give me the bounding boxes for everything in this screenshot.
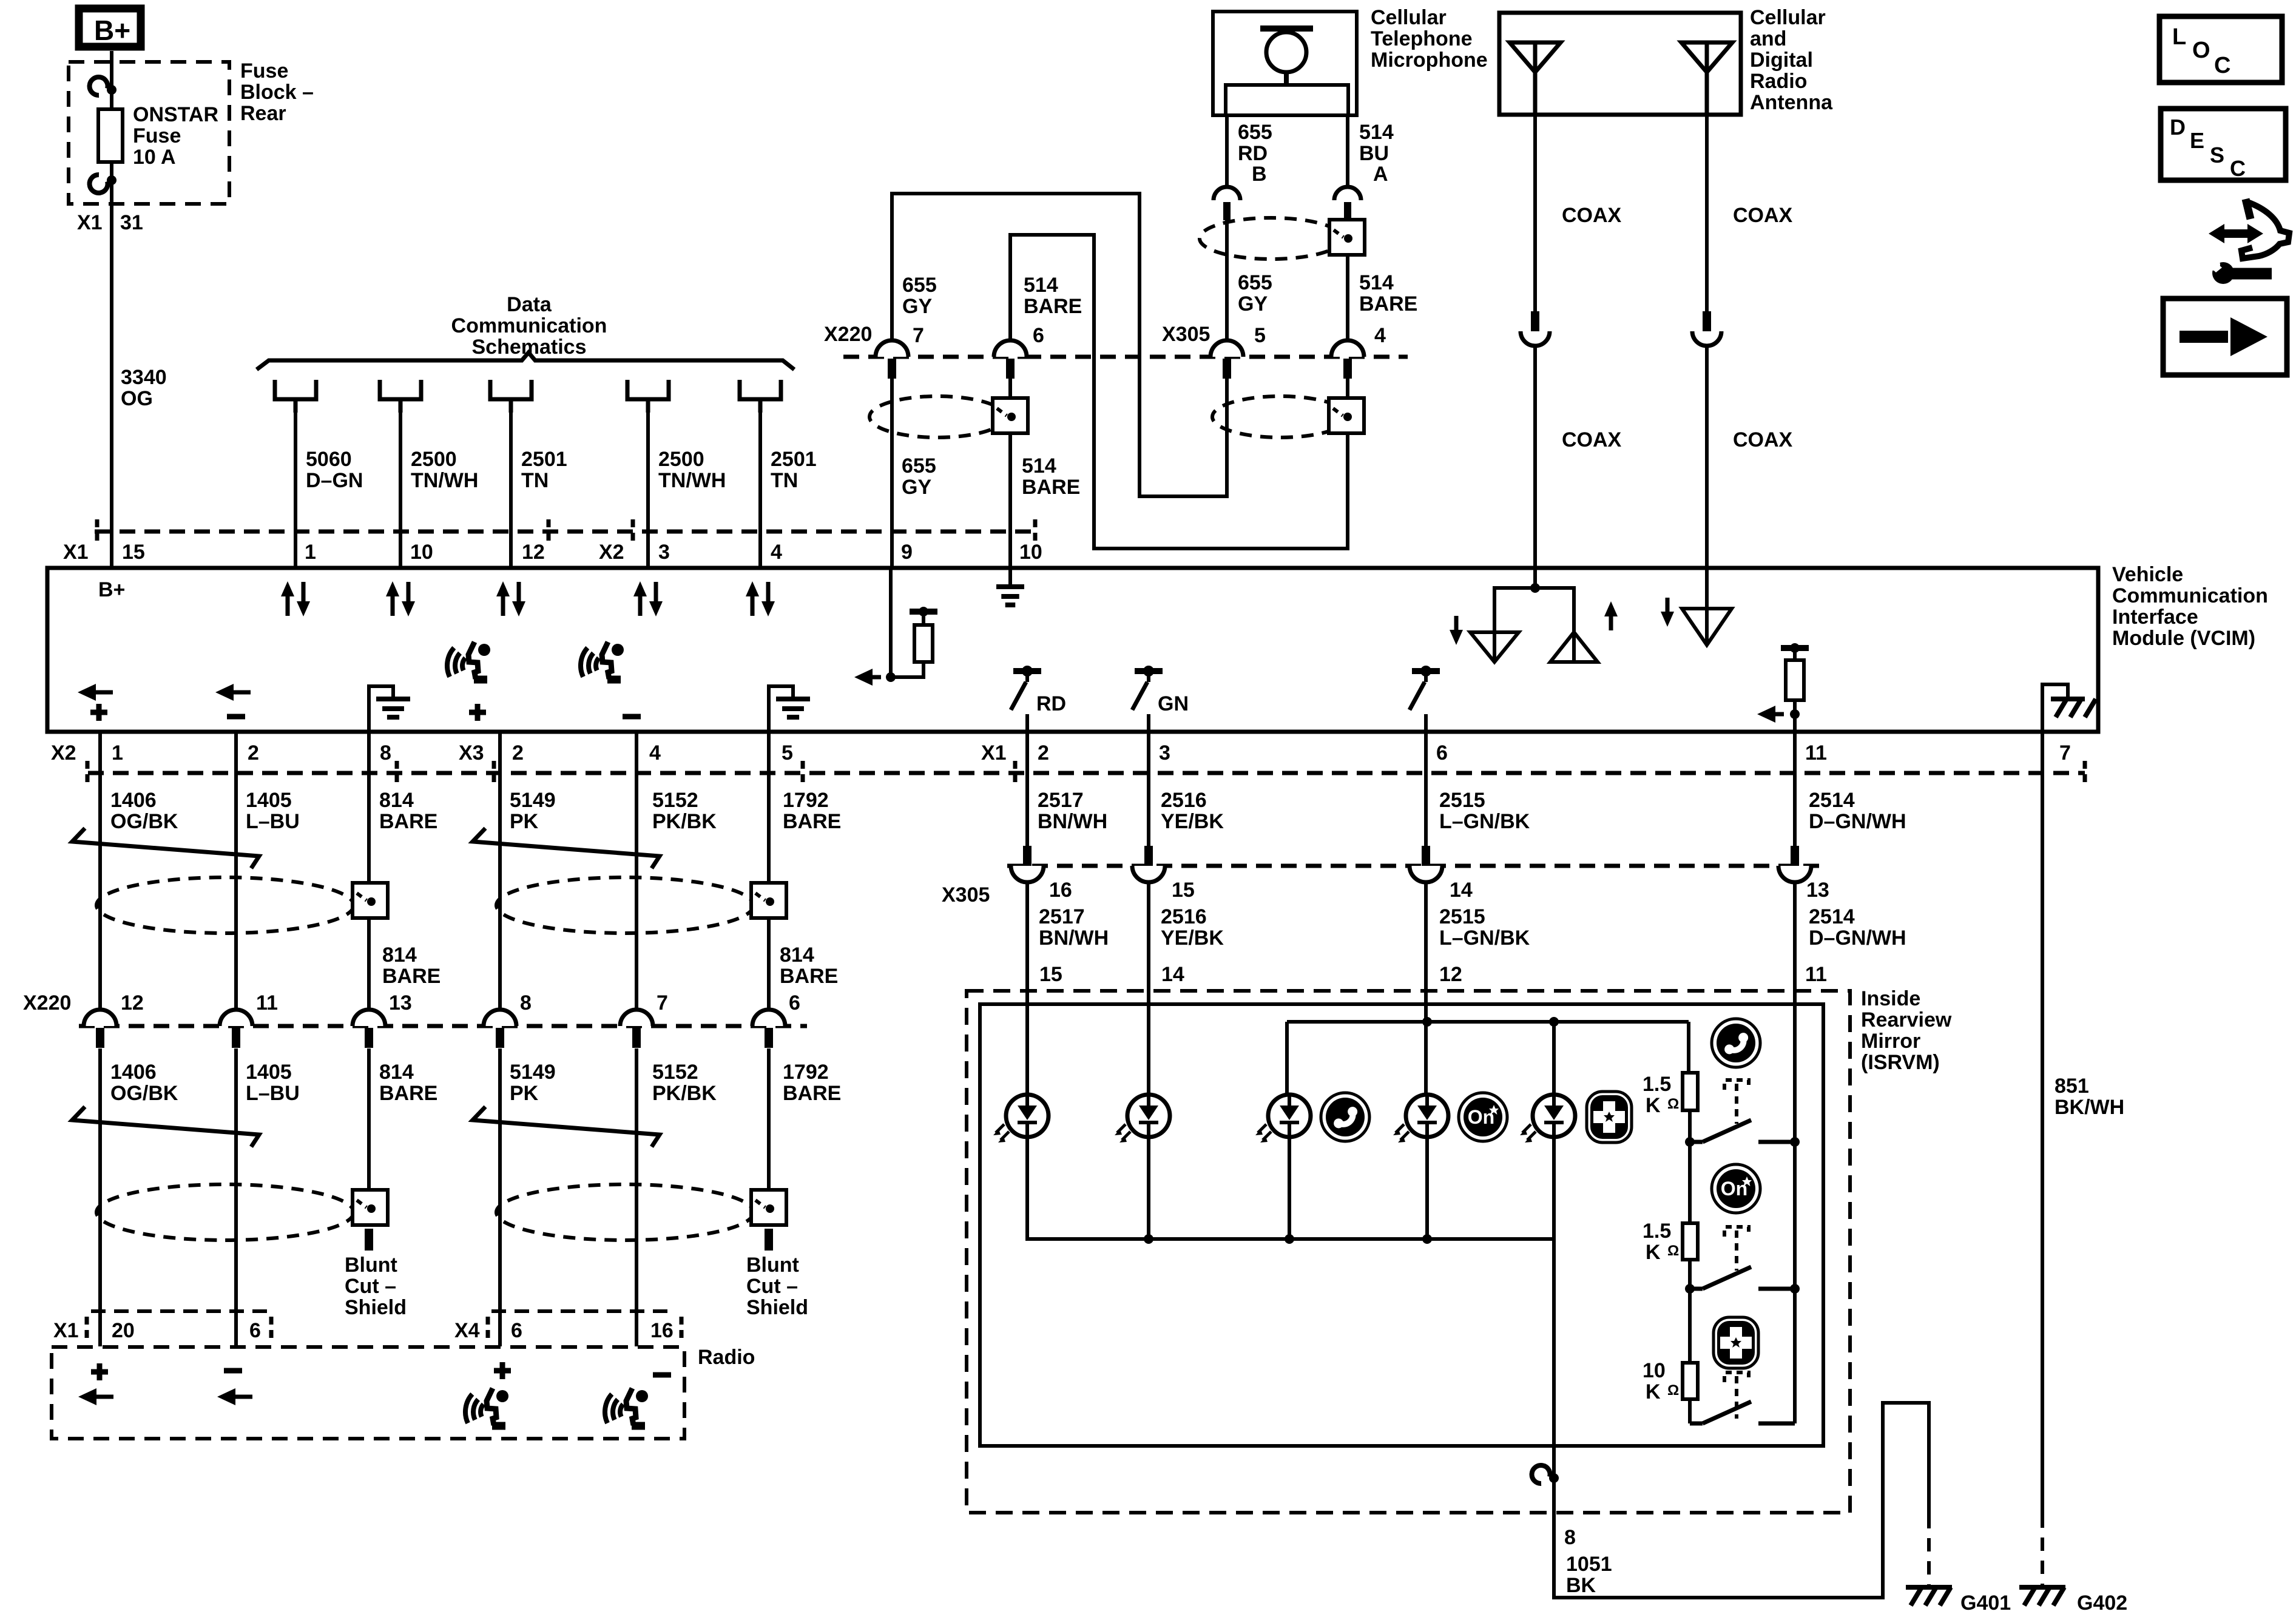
svg-text:Interface: Interface xyxy=(2112,606,2198,629)
connector separator at x=1706 xyxy=(1033,519,1038,544)
bus stub at x=660 xyxy=(380,380,421,413)
wire into ISRVM x=2350 xyxy=(1424,882,1428,1095)
svg-text:1406: 1406 xyxy=(110,789,157,812)
switch bus xyxy=(1793,1117,1797,1423)
wire VCIM to X305 lower x=2350 xyxy=(1424,732,1428,847)
svg-text:and: and xyxy=(1750,27,1786,50)
svg-text:2517: 2517 xyxy=(1039,905,1085,928)
svg-text:ONSTAR: ONSTAR xyxy=(133,103,218,126)
LED D1 xyxy=(993,1095,1048,1143)
svg-text:B+: B+ xyxy=(98,578,125,601)
wire below VCIM at x=824 xyxy=(498,732,502,1010)
svg-text:2515: 2515 xyxy=(1439,905,1485,928)
radio connector separator x=143 xyxy=(85,1317,89,1341)
svg-text:X4: X4 xyxy=(454,1319,480,1342)
legend DESC box xyxy=(2161,109,2286,180)
twisted pair symbol audio pair 1 xyxy=(72,828,259,868)
svg-text:X3: X3 xyxy=(459,741,484,765)
svg-text:514: 514 xyxy=(1359,271,1394,294)
wire below VCIM at x=608 xyxy=(367,732,371,1010)
coax connector 1 xyxy=(1531,311,1539,331)
connector X220 lower dashed line xyxy=(79,1024,807,1028)
ground symbol pin X2-8 xyxy=(369,686,393,732)
svg-text:X1: X1 xyxy=(77,211,103,234)
switch SW1 RD (pin X1-2) xyxy=(1013,668,1041,674)
connector X220 lower arcs and pins xyxy=(84,1010,116,1026)
emergency button icon chain xyxy=(1714,1317,1758,1368)
svg-text:Vehicle: Vehicle xyxy=(2112,563,2183,586)
radio connector separator x=447 xyxy=(269,1317,274,1341)
legend service icon wrench xyxy=(2229,268,2272,280)
svg-text:514: 514 xyxy=(1359,121,1394,144)
wire below VCIM at x=1049 xyxy=(635,732,638,1010)
svg-text:K: K xyxy=(1646,1094,1661,1117)
speaker icon pin X3-4 xyxy=(581,642,624,680)
legend arrow box xyxy=(2163,299,2287,375)
switch S3 emergency xyxy=(1690,1422,1703,1426)
svg-text:COAX: COAX xyxy=(1562,204,1622,227)
radio connector bracket X1 xyxy=(91,1309,267,1313)
svg-text:Digital: Digital xyxy=(1750,49,1813,72)
svg-text:Cellular: Cellular xyxy=(1750,6,1826,29)
wire X220-7 to VCIM pin 9 xyxy=(890,376,894,568)
svg-text:814: 814 xyxy=(379,1061,414,1084)
clip below fuse xyxy=(90,175,108,193)
shield lower pair 1 xyxy=(96,1184,354,1240)
svg-text:6: 6 xyxy=(1436,741,1448,765)
wire A to shield xyxy=(1346,220,1349,357)
speaker icon pin X3-2 xyxy=(447,642,490,680)
svg-text:X305: X305 xyxy=(942,883,990,906)
wire X220-6 to VCIM pin 10 xyxy=(1008,376,1012,568)
svg-text:1: 1 xyxy=(305,541,316,564)
wire mic A xyxy=(1346,115,1349,187)
shield around pair 2 to drain 814 xyxy=(496,877,754,933)
svg-text:20: 20 xyxy=(112,1319,135,1342)
svg-text:BARE: BARE xyxy=(783,810,841,833)
connector separator bottom row x=1673 xyxy=(1013,761,1018,785)
svg-text:11: 11 xyxy=(1805,963,1827,986)
svg-text:814: 814 xyxy=(382,944,417,967)
svg-text:13: 13 xyxy=(389,991,412,1014)
svg-text:PK/BK: PK/BK xyxy=(652,1082,717,1105)
ground lead G401 dashed xyxy=(1927,1515,1931,1585)
svg-text:8: 8 xyxy=(1564,1526,1576,1549)
svg-text:Block –: Block – xyxy=(240,81,314,104)
coax wire 1 xyxy=(1533,115,1537,311)
svg-text:10: 10 xyxy=(1643,1359,1666,1382)
svg-text:D–GN: D–GN xyxy=(306,469,363,492)
svg-text:BU: BU xyxy=(1359,142,1389,165)
connector separator bottom row x=654 xyxy=(395,761,399,785)
ground symbol pin X2-10 (top) xyxy=(1008,568,1012,587)
svg-text:TN: TN xyxy=(521,469,549,492)
svg-text:1: 1 xyxy=(112,741,123,765)
svg-text:2514: 2514 xyxy=(1809,905,1855,928)
LED D3 xyxy=(1255,1095,1311,1143)
svg-text:Ω: Ω xyxy=(1667,1096,1679,1112)
wire below X220 at x=824 xyxy=(498,1048,502,1346)
connector row X2/X3/X1 bottom of VCIM xyxy=(88,771,2085,775)
svg-text:Cut –: Cut – xyxy=(345,1275,396,1298)
wire below X220 at x=1049 xyxy=(635,1048,638,1346)
wire VCIM to X305 lower x=2958 xyxy=(1793,732,1797,847)
shield below X220 upper xyxy=(869,396,1005,437)
wire rail to LED3 xyxy=(1285,1022,1289,1095)
wire data circuit 2501 xyxy=(758,401,762,568)
fuse F1 ONSTAR 10A xyxy=(98,109,123,162)
svg-text:15: 15 xyxy=(1172,879,1195,902)
svg-text:2500: 2500 xyxy=(658,448,704,471)
module U1 Vehicle Communication Interface Module (VCIM) xyxy=(47,568,2098,732)
svg-text:L–GN/BK: L–GN/BK xyxy=(1439,927,1530,950)
svg-text:GN: GN xyxy=(1158,692,1189,715)
svg-text:12: 12 xyxy=(522,541,545,564)
svg-text:Microphone: Microphone xyxy=(1371,49,1488,72)
twisted pair symbol audio pair 2 xyxy=(473,828,660,868)
svg-text:1406: 1406 xyxy=(110,1061,157,1084)
wire 514 BARE loop (X305-4 to X220-6) xyxy=(1010,235,1348,549)
svg-text:11: 11 xyxy=(256,991,278,1014)
svg-text:OG/BK: OG/BK xyxy=(110,1082,178,1105)
svg-text:Fuse: Fuse xyxy=(240,59,288,83)
svg-text:Antenna: Antenna xyxy=(1750,91,1833,114)
wire junction1 to R2 xyxy=(1688,1142,1692,1223)
wire below VCIM at x=165 xyxy=(98,732,102,1010)
svg-text:K: K xyxy=(1646,1380,1661,1403)
antenna feed 2 inside VCIM xyxy=(1705,568,1709,609)
svg-text:RD: RD xyxy=(1238,142,1268,165)
connector row X1/X2 top of VCIM xyxy=(95,530,1039,534)
cellular telephone microphone box xyxy=(1213,12,1357,115)
legend service icon arrows xyxy=(2221,229,2251,238)
wire into ISRVM x=2958 xyxy=(1793,882,1797,1117)
audio out + arrow (pin X2-1) xyxy=(92,690,113,695)
svg-text:Shield: Shield xyxy=(345,1296,407,1319)
svg-text:655: 655 xyxy=(1238,121,1272,144)
svg-text:2: 2 xyxy=(1038,741,1049,765)
wire below VCIM at x=1267 xyxy=(767,732,771,1010)
onstar button icon chain xyxy=(1712,1164,1760,1213)
svg-text:814: 814 xyxy=(780,944,814,967)
connector separator at x=160 xyxy=(95,519,100,544)
svg-text:BARE: BARE xyxy=(379,810,437,833)
wire rail to LED5 xyxy=(1552,1022,1556,1095)
svg-text:11: 11 xyxy=(1805,741,1827,765)
svg-text:BARE: BARE xyxy=(780,965,838,988)
svg-text:X2: X2 xyxy=(599,541,624,564)
svg-text:COAX: COAX xyxy=(1733,204,1793,227)
svg-text:OG: OG xyxy=(121,387,153,410)
radio connector separator x=804 xyxy=(486,1317,490,1341)
wire below X220 at x=608 xyxy=(367,1048,371,1224)
resistor R1 1.5K xyxy=(1683,1073,1698,1110)
svg-text:X2: X2 xyxy=(51,741,76,765)
svg-text:1051: 1051 xyxy=(1566,1553,1612,1576)
connector X220 upper arcs xyxy=(876,340,908,357)
shield below X305 upper xyxy=(1212,396,1348,437)
svg-text:2516: 2516 xyxy=(1161,905,1207,928)
microphone symbol xyxy=(1260,25,1313,32)
LED anode rail xyxy=(1287,1020,1689,1024)
connector separator at x=904 xyxy=(547,519,551,544)
svg-text:PK: PK xyxy=(510,1082,539,1105)
svg-text:PK/BK: PK/BK xyxy=(652,810,717,833)
svg-text:GY: GY xyxy=(902,476,931,499)
onstar button icon row xyxy=(1459,1093,1507,1141)
ISRVM ground wire xyxy=(1554,1239,1929,1598)
wire below VCIM at x=389 xyxy=(234,732,238,1010)
svg-text:7: 7 xyxy=(913,324,924,347)
svg-text:G402: G402 xyxy=(2077,1592,2127,1615)
wire below X220 at x=389 xyxy=(234,1048,238,1346)
svg-text:31: 31 xyxy=(120,211,143,234)
twisted pair symbol lower pair 1 xyxy=(72,1107,259,1147)
bidirectional data arrows at x=487 xyxy=(286,595,290,616)
svg-text:Communication: Communication xyxy=(2112,584,2268,607)
LED cathode rail xyxy=(1027,1137,1554,1239)
radio connector separator x=1123 xyxy=(680,1317,684,1341)
wire into ISRVM x=1893 xyxy=(1147,882,1150,1095)
svg-text:1405: 1405 xyxy=(246,789,292,812)
svg-text:655: 655 xyxy=(1238,271,1272,294)
wire below X220 at x=165 xyxy=(98,1048,102,1346)
svg-text:TN/WH: TN/WH xyxy=(411,469,478,492)
clip above fuse xyxy=(90,77,108,95)
mic pair shield xyxy=(1200,218,1343,259)
svg-text:2500: 2500 xyxy=(411,448,457,471)
svg-text:Ω: Ω xyxy=(1667,1382,1679,1399)
svg-text:Module (VCIM): Module (VCIM) xyxy=(2112,627,2255,650)
fuse block dashed box (Fuse Block - Rear) xyxy=(69,62,229,204)
svg-text:GY: GY xyxy=(902,295,932,318)
bus stub at x=1253 xyxy=(740,380,781,413)
ISRVM inner module box xyxy=(980,1004,1823,1446)
svg-text:514: 514 xyxy=(1024,274,1058,297)
antenna feed 1 inside VCIM xyxy=(1533,568,1537,588)
wire below X220 at x=1267 xyxy=(767,1048,771,1224)
svg-text:6: 6 xyxy=(1033,324,1044,347)
resistor and arrow pin X2-9 xyxy=(910,609,937,615)
radio speaker + icon xyxy=(494,1362,511,1379)
svg-text:Rear: Rear xyxy=(240,102,286,125)
svg-text:D: D xyxy=(2170,115,2186,140)
svg-text:6: 6 xyxy=(789,991,800,1014)
svg-text:2: 2 xyxy=(248,741,259,765)
svg-text:OG/BK: OG/BK xyxy=(110,810,178,833)
svg-text:5060: 5060 xyxy=(306,448,352,471)
connector X305 lower dashed line xyxy=(1007,864,1826,868)
resistor R2 1.5K xyxy=(1683,1223,1698,1260)
wire junction2 to R3 xyxy=(1688,1289,1692,1363)
shield around pair 1 to drain 814 xyxy=(96,877,354,933)
connector X305 upper arcs xyxy=(1210,340,1243,357)
phone button icon row xyxy=(1321,1093,1369,1141)
svg-text:16: 16 xyxy=(1049,879,1072,902)
svg-text:5152: 5152 xyxy=(652,1061,698,1084)
svg-text:3340: 3340 xyxy=(121,366,167,389)
svg-text:7: 7 xyxy=(657,991,668,1014)
ground symbol pin X3-5 xyxy=(769,686,793,732)
svg-text:10: 10 xyxy=(1019,541,1042,564)
svg-text:4: 4 xyxy=(771,541,782,564)
wire R3 to switch3 xyxy=(1688,1399,1692,1423)
antenna symbol 1 xyxy=(1510,42,1561,72)
svg-text:12: 12 xyxy=(1439,963,1462,986)
svg-text:Cellular: Cellular xyxy=(1371,6,1447,29)
wire 851 BK/WH xyxy=(2041,732,2044,1514)
bidirectional data arrows at x=660 xyxy=(391,595,395,616)
svg-text:Radio: Radio xyxy=(1750,70,1807,93)
svg-text:BARE: BARE xyxy=(783,1082,841,1105)
connector separator bottom row x=814 xyxy=(492,761,496,785)
wire VCIM to X305 lower x=1693 xyxy=(1025,732,1029,847)
svg-text:Mirror: Mirror xyxy=(1861,1030,1920,1053)
power symbol B+ xyxy=(79,8,141,47)
wire data circuit 2500 xyxy=(646,401,650,568)
svg-text:6: 6 xyxy=(511,1319,522,1342)
svg-text:BN/WH: BN/WH xyxy=(1038,810,1107,833)
svg-text:D–GN/WH: D–GN/WH xyxy=(1809,810,1906,833)
svg-text:10 A: 10 A xyxy=(133,146,176,169)
radio connector bracket X4 xyxy=(491,1309,667,1313)
legend LOC box xyxy=(2159,16,2282,83)
svg-text:851: 851 xyxy=(2055,1075,2089,1098)
wire fuse to VCIM pin X1-15 xyxy=(110,162,113,568)
wire B+ to fuse xyxy=(110,51,113,109)
switch SW2 GN (pin X1-3) xyxy=(1135,668,1163,674)
wire R2 to junction2 xyxy=(1688,1260,1692,1289)
svg-text:2514: 2514 xyxy=(1809,789,1855,812)
svg-text:Radio: Radio xyxy=(698,1346,755,1369)
svg-text:4: 4 xyxy=(1374,324,1386,347)
resistor and arrow pin X1-11 xyxy=(1781,645,1809,651)
wire R1 to junction xyxy=(1688,1110,1692,1142)
svg-text:10: 10 xyxy=(410,541,433,564)
svg-text:Fuse: Fuse xyxy=(133,124,181,147)
svg-text:G401: G401 xyxy=(1960,1592,2011,1615)
ground lead G402 dashed xyxy=(2041,1514,2044,1585)
svg-text:Blunt: Blunt xyxy=(746,1254,799,1277)
chassis ground pin X1-7 xyxy=(2042,684,2068,732)
connector X305 lower pin x=2350 xyxy=(1422,846,1430,866)
bidirectional data arrows at x=842 xyxy=(501,595,505,616)
svg-text:L: L xyxy=(2172,24,2186,50)
svg-text:1.5: 1.5 xyxy=(1643,1220,1671,1243)
svg-text:655: 655 xyxy=(902,454,936,478)
svg-text:Communication: Communication xyxy=(451,314,607,337)
svg-text:X220: X220 xyxy=(824,323,872,346)
svg-text:Telephone: Telephone xyxy=(1371,27,1473,50)
svg-text:6: 6 xyxy=(249,1319,261,1342)
antenna symbol 2 xyxy=(1681,42,1732,72)
wire mic B xyxy=(1225,115,1229,187)
ISRVM ground clip xyxy=(1532,1465,1550,1484)
radio audio + arrow xyxy=(91,1363,108,1380)
wire data circuit 2500 xyxy=(399,401,402,568)
svg-text:7: 7 xyxy=(2059,741,2071,765)
svg-text:X305: X305 xyxy=(1162,323,1210,346)
svg-text:YE/BK: YE/BK xyxy=(1161,927,1224,950)
svg-text:655: 655 xyxy=(902,274,937,297)
svg-text:B+: B+ xyxy=(94,15,130,46)
wire into ISRVM x=1693 xyxy=(1025,882,1029,1095)
LED D2 xyxy=(1115,1095,1170,1143)
svg-text:X1: X1 xyxy=(981,741,1007,765)
svg-text:B: B xyxy=(1252,163,1267,186)
connector separator bottom row x=3436 xyxy=(2083,761,2087,785)
svg-text:C: C xyxy=(2214,53,2230,78)
svg-text:X1: X1 xyxy=(53,1319,79,1342)
svg-text:814: 814 xyxy=(379,789,414,812)
svg-text:5: 5 xyxy=(1254,324,1266,347)
svg-text:3: 3 xyxy=(1159,741,1170,765)
svg-text:2515: 2515 xyxy=(1439,789,1485,812)
svg-text:L–GN/BK: L–GN/BK xyxy=(1439,810,1530,833)
wire rail to resistor chain xyxy=(1687,1022,1690,1073)
LED D4 xyxy=(1393,1095,1448,1143)
ground G402 xyxy=(2019,1585,2065,1590)
connector pin A xyxy=(1334,187,1361,200)
svg-text:8: 8 xyxy=(520,991,532,1014)
svg-text:S: S xyxy=(2210,143,2224,167)
coax connector 2 xyxy=(1703,311,1711,331)
phone button icon chain xyxy=(1712,1019,1760,1067)
svg-text:A: A xyxy=(1373,163,1388,186)
svg-text:BARE: BARE xyxy=(1024,295,1082,318)
svg-text:2516: 2516 xyxy=(1161,789,1207,812)
svg-text:BARE: BARE xyxy=(1359,292,1417,316)
svg-text:BARE: BARE xyxy=(379,1082,437,1105)
svg-text:15: 15 xyxy=(1039,963,1062,986)
emergency button icon row xyxy=(1587,1092,1632,1143)
connector separator bottom row x=1323 xyxy=(801,761,805,785)
radio dashed box xyxy=(52,1347,684,1439)
radio speaker - icon xyxy=(653,1372,671,1378)
svg-text:Rearview: Rearview xyxy=(1861,1008,1952,1031)
emergency button actuator xyxy=(1724,1372,1749,1382)
switch S1 phone xyxy=(1690,1140,1703,1144)
svg-text:8: 8 xyxy=(380,741,391,765)
svg-text:GY: GY xyxy=(1238,292,1268,316)
svg-text:2: 2 xyxy=(512,741,524,765)
bus stub at x=1068 xyxy=(627,380,669,413)
svg-text:5149: 5149 xyxy=(510,1061,556,1084)
connector separator at x=1043 xyxy=(631,519,635,544)
svg-text:12: 12 xyxy=(121,991,144,1014)
svg-text:K: K xyxy=(1646,1241,1661,1264)
wire VCIM to X305 lower x=1893 xyxy=(1147,732,1150,847)
svg-text:Ω: Ω xyxy=(1667,1243,1679,1259)
connector X305 upper dashed line xyxy=(1025,355,1408,359)
svg-text:D–GN/WH: D–GN/WH xyxy=(1809,927,1906,950)
cellular and digital radio antenna box xyxy=(1499,13,1741,115)
svg-text:Blunt: Blunt xyxy=(345,1254,397,1277)
shield lower pair 2 xyxy=(496,1184,754,1240)
svg-text:E: E xyxy=(2190,128,2204,153)
svg-text:C: C xyxy=(2230,156,2246,181)
bus stub at x=487 xyxy=(275,380,316,413)
svg-text:3: 3 xyxy=(658,541,670,564)
ground G401 xyxy=(1906,1585,1952,1590)
svg-text:X1: X1 xyxy=(63,541,89,564)
svg-text:RD: RD xyxy=(1036,692,1066,715)
svg-text:BARE: BARE xyxy=(382,965,441,988)
svg-text:1792: 1792 xyxy=(783,1061,829,1084)
svg-text:13: 13 xyxy=(1806,879,1829,902)
svg-text:Inside: Inside xyxy=(1861,987,1920,1010)
twisted pair symbol lower pair 2 xyxy=(473,1107,660,1147)
